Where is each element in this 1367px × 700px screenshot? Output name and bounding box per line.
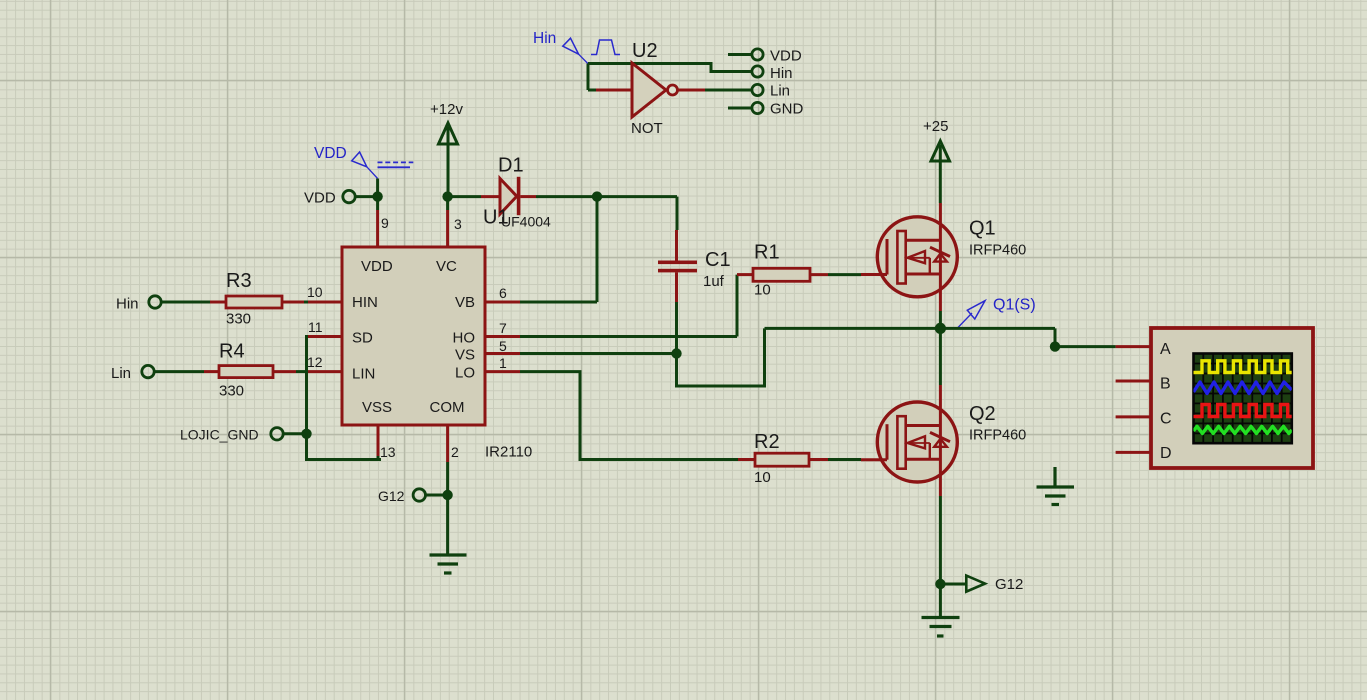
svg-text:VS: VS [455,347,475,364]
terminal Hin (right) [752,66,763,77]
resistor R4 right lead [273,370,296,373]
Q1 drain/source vertical [939,203,942,311]
wire G12 stub [426,494,448,497]
svg-text:Lin: Lin [111,365,131,382]
wire to G12 output terminal [940,583,966,586]
svg-text:5: 5 [499,338,507,354]
ground (near scope) [1037,467,1075,505]
wire gap R4 [296,370,308,373]
ground (under Q2) [922,618,960,637]
diode D1 [500,179,517,215]
Q2 drain/source vertical [939,385,942,496]
wire +12v rail to node [448,197,481,210]
wire VB vertical [520,197,597,302]
pin 5 (VS) [485,352,520,355]
transistor Q1 IRFP460 [861,203,957,311]
svg-text:10: 10 [754,282,771,299]
wire Q2 source down [939,496,942,616]
svg-text:SD: SD [352,330,373,347]
pin 12 [308,370,342,373]
svg-text:+12v: +12v [430,101,463,118]
svg-text:Lin: Lin [770,83,790,100]
pin 13 [377,425,380,456]
wire LOJIC_GND stub [284,432,307,435]
svg-text:Q1(S): Q1(S) [993,297,1036,314]
svg-text:D1: D1 [498,155,524,177]
wire gap R3 [304,301,308,304]
svg-text:VSS: VSS [362,399,392,416]
wire Q1 source to node [939,311,942,328]
wire R2 to Q2 gate [828,458,861,461]
pin 2 [446,425,449,462]
svg-text:UF4004: UF4004 [501,214,551,230]
scope input pin C [1116,415,1151,418]
resistor R3 body [226,296,282,308]
capacitor C1 top lead [675,230,678,261]
IC U? IR2110 body [342,247,485,425]
pulse generator icon [591,40,620,55]
oscilloscope body [1151,328,1313,468]
junction dot scope A [1050,341,1060,351]
resistor R3 left lead [210,301,226,304]
terminal Hin (far left) [149,296,161,308]
svg-text:U2: U2 [632,40,658,62]
svg-text:Hin: Hin [533,30,556,47]
resistor R4 left lead [204,370,219,373]
probe Hin (blue) [563,38,589,64]
scope input pin D [1116,451,1151,454]
wire Q1 node down to Q2 [939,328,942,385]
transistor Q2 IRFP460 [861,385,957,496]
wire SD net elbow [307,337,382,460]
wire VDD terminal stub [728,53,752,56]
svg-text:R4: R4 [219,341,245,363]
svg-text:Q1: Q1 [969,218,996,240]
junction dot LOJIC_GND [301,429,311,439]
wire R1 to Q1 gate [828,273,861,276]
svg-text:VB: VB [455,294,475,311]
terminal LOJIC_GND [271,428,283,440]
pin 6 (VB) [485,301,520,304]
wire VDD terminal to pin 9 [356,179,378,211]
terminal GND (right) [752,102,763,113]
wire VS net [520,328,765,386]
wire Lin to R4 [155,370,205,373]
svg-text:NOT: NOT [631,120,663,137]
svg-text:9: 9 [381,215,389,231]
svg-text:B: B [1160,376,1171,393]
diode D1 cathode bar [517,177,521,215]
scope trace B blue [1194,382,1292,394]
junction dot VB node [592,191,602,201]
scope input pin B [1116,380,1151,383]
svg-text:HIN: HIN [352,294,378,311]
svg-text:D: D [1160,445,1172,462]
resistor R1 body [753,268,810,281]
svg-text:VDD: VDD [361,258,393,275]
scope trace C red [1194,405,1292,417]
terminal Lin (far left) [142,365,154,377]
svg-text:1: 1 [499,355,507,371]
wire COM down to ground [446,462,449,554]
svg-text:C: C [1160,411,1172,428]
resistor R4 body [219,366,273,378]
ground (under IC) [430,555,467,573]
svg-text:VDD: VDD [304,190,336,207]
op-amp U2 NOT gate triangle [632,63,666,117]
svg-text:A: A [1160,341,1171,358]
svg-text:COM: COM [430,399,465,416]
resistor R2 right lead [809,458,828,461]
resistor R2 left lead [738,458,755,461]
svg-text:IRFP460: IRFP460 [969,243,1026,259]
wire LO to R2 [520,372,738,460]
svg-text:HO: HO [453,330,476,347]
svg-text:IR2110: IR2110 [485,444,532,461]
svg-text:Hin: Hin [770,65,793,82]
wire pin13 link [378,456,381,460]
wire U2 output [705,89,752,92]
scope trace A yellow [1194,361,1292,373]
svg-text:12: 12 [307,354,323,370]
pin 9 [376,210,379,247]
probe Q1(S) (blue) [958,301,986,328]
capacitor C1 bottom lead [675,272,678,302]
pin 1 (LO) [485,370,520,373]
power +12v symbol [439,123,458,197]
wire HO to R1 [520,275,737,337]
svg-text:7: 7 [499,320,507,336]
probe VDD (blue) [352,152,414,179]
terminal Lin (right) [752,84,763,95]
power +25 symbol [931,141,950,203]
svg-text:3: 3 [454,216,462,232]
scope input pin A [1116,345,1151,348]
terminal G12 (left of COM) [413,489,425,501]
resistor R3 right lead [282,301,304,304]
svg-text:330: 330 [226,311,251,328]
junction dot pin9 [372,191,382,201]
terminal VDD (top right) [752,49,763,60]
pin 7 (HO) [485,335,520,338]
diode D1 cathode lead [520,195,536,198]
svg-text:VC: VC [436,258,457,275]
scope trace D green [1194,426,1292,433]
svg-text:LOJIC_GND: LOJIC_GND [180,427,259,443]
junction dot COM/G12 [442,490,452,500]
pin 3 [446,210,449,247]
svg-text:Q2: Q2 [969,403,996,425]
svg-text:IRFP460: IRFP460 [969,428,1026,444]
junction dot pin3 [442,191,452,201]
svg-text:G12: G12 [995,576,1023,593]
wire phase node horizontal [765,328,1116,346]
wire U2 input vertical [587,64,590,91]
svg-text:1uf: 1uf [703,273,725,290]
wire U2 top horizontal [588,64,752,72]
wire C1 bottom to VS [675,302,678,354]
svg-text:R1: R1 [754,242,780,264]
terminal G12 output arrow [966,576,985,592]
pin U2 input [596,89,632,92]
junction dot G12 out [935,579,945,589]
svg-text:Hin: Hin [116,296,139,313]
pin U2 output [678,89,705,92]
U2 bubble [668,85,678,95]
terminal VDD (left of pin 9) [343,190,355,202]
svg-text:330: 330 [219,383,244,400]
svg-text:R3: R3 [226,270,252,292]
svg-text:13: 13 [380,444,396,460]
svg-text:2: 2 [451,444,459,460]
resistor R1 right lead [810,273,828,276]
svg-text:10: 10 [307,284,323,300]
svg-text:LO: LO [455,365,475,382]
junction dot Q1 source [935,323,946,334]
wire GND terminal stub [728,107,752,110]
svg-text:VDD: VDD [770,48,802,65]
resistor R1 left lead [737,273,753,276]
pin 10 [308,301,342,304]
svg-text:6: 6 [499,285,507,301]
pin 11 [308,335,342,338]
svg-text:10: 10 [754,469,771,486]
svg-text:GND: GND [770,101,804,118]
svg-text:VDD: VDD [314,145,347,162]
diode D1 anode lead [481,195,500,198]
svg-text:LIN: LIN [352,366,375,383]
resistor R2 body [755,453,809,466]
svg-text:G12: G12 [378,488,405,504]
svg-text:R2: R2 [754,431,780,453]
svg-text:C1: C1 [705,249,731,271]
svg-text:11: 11 [308,319,323,335]
wire D1 to VB node [536,197,677,230]
wire U2 input stub [588,89,597,92]
svg-text:+25: +25 [923,118,948,135]
capacitor C1 plates [658,261,697,265]
scope screen [1194,354,1292,444]
wire Hin to R3 [162,301,211,304]
junction dot VS/C1 [671,348,681,358]
